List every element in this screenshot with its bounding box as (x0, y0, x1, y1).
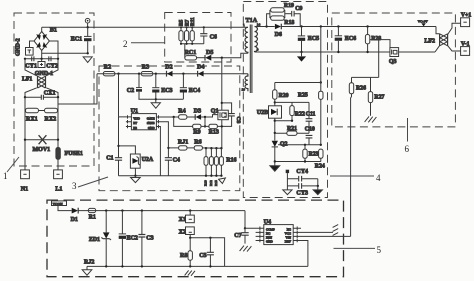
capacitor C1 (106, 117, 122, 176)
svg-text:EC1: EC1 (71, 36, 82, 42)
junction CY right (57, 58, 59, 60)
section3 bottom wire (119, 175, 222, 177)
wire RC1 to D5 (197, 57, 205, 59)
svg-text:L1: L1 (55, 187, 62, 193)
svg-text:X2: X2 (179, 229, 186, 235)
svg-text:R1: R1 (89, 214, 96, 220)
link between gate rows (204, 117, 206, 126)
sense resistor bank with R16 (204, 147, 237, 177)
junction VDD drop (117, 73, 119, 75)
caps bottom wire (138, 98, 183, 100)
svg-text:3: 3 (72, 181, 77, 191)
svg-text:C11: C11 (306, 111, 316, 117)
resistor R7 (rotated label) (184, 19, 190, 44)
resistor R3 (141, 65, 153, 76)
svg-text:FB: FB (133, 126, 137, 130)
diode D5 (205, 50, 213, 60)
wire to R20 (275, 82, 321, 84)
svg-text:CX1: CX1 (44, 91, 56, 97)
svg-text:RX2: RX2 (45, 116, 57, 122)
shunt regulator U2A (117, 145, 154, 176)
junction EC5 bottom + ground (297, 51, 306, 62)
box 4 secondary rectifier/feedback (243, 2, 327, 198)
long feedback vertical to U4 (350, 94, 353, 237)
terminal X2 (179, 227, 195, 238)
capacitor C2 (127, 74, 142, 100)
diode D1 (71, 208, 79, 223)
svg-text:C7: C7 (234, 233, 241, 239)
svg-text:RJ2: RJ2 (84, 260, 94, 266)
wire D5 to transformer primary bottom (211, 53, 248, 57)
VCON input mini box (52, 201, 72, 211)
U4 pin VIN to feedback vertical (293, 235, 350, 239)
slash ground below R27 (365, 116, 377, 122)
capacitor C11 (306, 102, 316, 133)
slanted ground arrow at sense bank (219, 178, 226, 184)
section5 top wire (78, 210, 245, 212)
feedback divider takeoff vertical (320, 25, 322, 27)
svg-text:C3: C3 (146, 235, 153, 241)
fuse FUSE1 (56, 148, 83, 170)
junction EC4 drop (182, 73, 184, 75)
MOSFET Q1 (211, 109, 228, 120)
resistor RC1 (185, 50, 197, 60)
svg-text:6: 6 (405, 144, 410, 154)
resistor RX1 (26, 108, 39, 122)
U1 pin RT stub (126, 120, 131, 123)
svg-text:RT: RT (133, 121, 137, 125)
gate pulldown row wire (174, 117, 222, 126)
label 2 leader (131, 42, 165, 44)
snubber capacitor C8 loop (221, 102, 241, 127)
svg-text:EC5: EC5 (308, 36, 319, 42)
label 5 leader (334, 247, 376, 249)
svg-text:14: 14 (257, 22, 261, 26)
box 6 output filter (332, 13, 456, 127)
U1 pin VDD stub (119, 115, 132, 118)
svg-text:FUSE1: FUSE1 (65, 151, 83, 157)
filled ground arrow right (313, 186, 322, 195)
U4 pin VCC to chassis ground (293, 231, 333, 235)
primary winding (245, 27, 248, 53)
section4 ground bus (275, 161, 321, 163)
svg-text:MOV1: MOV1 (33, 147, 51, 153)
svg-text:EC4: EC4 (189, 88, 200, 94)
Q1 source vertical (221, 120, 223, 149)
lower feedback wire (278, 144, 321, 146)
resistor R23 (303, 145, 319, 162)
svg-text:VDD: VDD (133, 116, 140, 120)
terminal V- (461, 42, 470, 56)
wire VDD feed vertical (118, 74, 120, 117)
diode D2 (165, 65, 172, 77)
transistor Q2 (272, 141, 288, 162)
svg-text:C10: C10 (305, 126, 315, 132)
svg-text:R3: R3 (142, 65, 149, 71)
svg-text:R25: R25 (298, 92, 308, 98)
svg-text:RX1: RX1 (26, 116, 38, 122)
X2 row wire (190, 238, 224, 267)
core (250, 25, 252, 94)
diode D6 (275, 24, 282, 38)
snubber bottom connecting wire (181, 43, 204, 45)
svg-text:C5: C5 (199, 253, 206, 259)
svg-text:D5: D5 (206, 50, 213, 56)
open ground arrow left (283, 190, 292, 195)
box 2 snubber (165, 13, 231, 63)
section5 ground bus (87, 265, 308, 267)
resistor R24 (315, 149, 325, 169)
svg-text:D6: D6 (275, 32, 282, 38)
output node label VO (418, 20, 428, 27)
capacitor C6 (200, 26, 217, 44)
svg-text:LF1: LF1 (22, 77, 32, 83)
svg-text:Q3: Q3 (389, 59, 397, 65)
svg-text:R11: R11 (190, 17, 196, 26)
capacitor EC5 (298, 25, 319, 52)
IC U4 (264, 219, 294, 245)
svg-text:GND: GND (148, 126, 155, 130)
U4 pin DRV down to bus (293, 239, 308, 267)
node circle test point (85, 18, 90, 27)
feedback wire to R26 R27 (352, 76, 379, 78)
capacitor C5 (199, 238, 214, 268)
U1 pin FB stub (126, 125, 131, 128)
capacitor C4 (165, 147, 180, 176)
svg-text:CY2: CY2 (46, 63, 58, 69)
svg-text:C6: C6 (210, 34, 217, 40)
svg-text:R9: R9 (193, 130, 200, 136)
opto/reference U2B (257, 106, 282, 141)
capacitor EC2 (119, 209, 138, 266)
svg-text:CY4: CY4 (296, 169, 308, 175)
svg-text:Q1: Q1 (211, 109, 219, 115)
capacitor CY4 (287, 169, 317, 186)
svg-text:CY1: CY1 (25, 63, 37, 69)
svg-text:10: 10 (242, 88, 246, 92)
capacitor CY1 (25, 56, 37, 69)
capacitor CY3 (287, 183, 319, 197)
svg-text:GATE: GATE (147, 116, 155, 120)
capacitor EC3 (152, 74, 172, 100)
ground below U2A (131, 176, 141, 183)
svg-text:2: 2 (123, 39, 128, 49)
capacitor C3 (138, 209, 153, 266)
svg-text:R22: R22 (295, 111, 305, 117)
ground below EC1 (83, 57, 92, 63)
capacitor EC4 (180, 74, 200, 100)
resistor R21 (275, 126, 309, 136)
U4 left pin stubs (245, 227, 264, 231)
wire snubber down leg (184, 44, 186, 58)
svg-text:R19: R19 (284, 3, 294, 9)
label 6 leader (407, 118, 409, 142)
right vertical L line (57, 97, 59, 147)
wire U2B lower node (275, 120, 292, 122)
terminal X1 (179, 209, 195, 223)
label 4 leader (330, 175, 374, 177)
terminal N1 (21, 170, 30, 193)
svg-text:EC3: EC3 (161, 88, 172, 94)
transformer T1A (242, 17, 261, 93)
resistor R4 (178, 109, 187, 120)
resistor R25 (298, 83, 323, 145)
junction CY mid (40, 58, 42, 60)
svg-text:DRV: DRV (285, 240, 292, 244)
slash ground below C7 (240, 246, 252, 252)
svg-text:1: 1 (243, 23, 245, 27)
resistor R8 (180, 238, 192, 268)
secondary winding (255, 27, 258, 53)
gate row wire (174, 116, 196, 118)
svg-text:VO.0V: VO.0V (418, 20, 428, 24)
svg-text:R27: R27 (374, 95, 384, 101)
svg-text:EC2: EC2 (127, 235, 138, 241)
wire bridge left vertex to GND-2 box (30, 41, 35, 48)
terminal L1 (54, 170, 63, 193)
wire bridge top to rail (41, 27, 43, 31)
MOSFET Q3 (389, 48, 399, 66)
svg-text:R24: R24 (315, 164, 325, 170)
junction C2 drop (138, 73, 140, 75)
bridge rectifier B1 (34, 27, 57, 51)
svg-text:C8: C8 (235, 117, 241, 124)
wire gate to Q1 (205, 115, 218, 117)
wire bridge bottom to CY row (41, 51, 43, 59)
sense row wire (168, 147, 221, 149)
svg-text:CY3: CY3 (296, 191, 308, 197)
svg-text:R2: R2 (104, 65, 111, 71)
svg-text:U2A: U2A (142, 157, 154, 163)
junction EC3 drop (155, 73, 157, 75)
svg-text:GND-2: GND-2 (16, 38, 22, 56)
U1 pin GATE stub (156, 115, 173, 118)
ground below EC3 (151, 99, 160, 108)
junction Q1 drain on snubber wire (221, 57, 223, 59)
zener ZD1 (89, 209, 111, 266)
label 1 leader (7, 157, 19, 172)
wire R20 node to R22/C11 (275, 101, 309, 103)
resistor R27 (368, 77, 384, 115)
wire RX row (25, 110, 58, 112)
resistor R13 (209, 124, 219, 135)
secondary bottom rail (255, 51, 436, 53)
resistor R26 (349, 77, 366, 93)
svg-text:RJ1: RJ1 (178, 140, 188, 146)
U1 pin GND stub and vertical (156, 125, 160, 176)
svg-text:5: 5 (377, 245, 382, 255)
svg-text:D1: D1 (71, 217, 78, 223)
slash ground below R8 (185, 270, 195, 275)
box 5 bottom control (47, 200, 344, 277)
svg-text:EC6: EC6 (345, 36, 356, 42)
wire bridge right vertex to L vertical (49, 41, 58, 59)
capacitor CX1 (24, 91, 59, 100)
Q3 gate net (370, 40, 390, 78)
svg-text:N1: N1 (21, 187, 28, 193)
resistor R20 (273, 83, 289, 106)
svg-text:C4: C4 (173, 158, 180, 164)
U1 pin SNSB stub and vertical (156, 120, 168, 148)
svg-text:ZD1: ZD1 (89, 237, 100, 243)
svg-text:SNSB: SNSB (147, 121, 155, 125)
svg-text:VCON: VCON (53, 202, 64, 206)
tiny rotated labels under sense bank (204, 180, 219, 186)
resistor R11 (rotated label) (190, 17, 196, 44)
GND-2 thermistor box (26, 48, 34, 56)
svg-text:D4: D4 (197, 65, 204, 71)
svg-text:1: 1 (3, 171, 8, 181)
aux winding (245, 74, 248, 92)
box 1 input filter (14, 13, 94, 166)
aux supply rail (97, 73, 248, 75)
Q1 drain vertical (221, 58, 223, 110)
resistor RX2 (45, 108, 58, 122)
secondary top rail (255, 26, 437, 28)
earth box below CY mid (38, 59, 45, 68)
junction CY left (24, 58, 26, 60)
U4 right pin NC stub (293, 227, 301, 231)
resistor R28 (365, 25, 381, 53)
resistor R6 (194, 140, 202, 150)
output choke LF2 (424, 23, 460, 52)
svg-text:C2: C2 (127, 88, 134, 94)
CY4 pin stub (286, 170, 289, 190)
svg-text:4: 4 (376, 173, 381, 183)
resistor R22 (290, 102, 305, 120)
resistor RJ2 + ground (82, 260, 94, 276)
svg-text:C1: C1 (106, 156, 113, 162)
parallel resistors R19 R18 (265, 3, 294, 28)
capacitor EC6 (335, 25, 356, 53)
svg-text:R4: R4 (178, 109, 185, 115)
svg-text:X1: X1 (179, 217, 186, 223)
svg-text:R20: R20 (279, 93, 289, 99)
svg-text:D3: D3 (194, 109, 201, 115)
common mode choke LF1 (22, 59, 58, 97)
svg-text:GND: GND (266, 240, 273, 244)
wire CX1 to section3 (R2 row feed) (58, 74, 97, 104)
svg-text:R13: R13 (209, 130, 219, 136)
capacitor EC1 (71, 26, 92, 53)
diode D3 (194, 109, 205, 120)
svg-text:R12: R12 (209, 180, 213, 186)
svg-text:R23: R23 (309, 152, 319, 158)
resistor RJ1 (178, 140, 188, 150)
CY row wire (25, 58, 58, 60)
svg-text:R6: R6 (194, 140, 201, 146)
capacitor C7 (234, 211, 248, 244)
varistor MOV1 (24, 135, 59, 153)
resistor R1 (label) (88, 208, 96, 220)
capacitor C9 (292, 6, 303, 26)
svg-text:R8: R8 (180, 253, 187, 259)
left vertical N line (24, 97, 26, 170)
box 3 primary control (99, 66, 240, 191)
diode D4 (197, 65, 204, 77)
svg-text:U2B: U2B (257, 110, 268, 116)
filled ground arrow below bus (270, 162, 280, 172)
svg-text:D2: D2 (165, 65, 172, 71)
terminal V+ (461, 13, 472, 27)
svg-text:R10: R10 (204, 180, 208, 186)
resistor R2 (103, 65, 115, 76)
chassis ground squiggle (333, 225, 339, 236)
svg-text:R15: R15 (214, 180, 218, 186)
capacitor C10 (305, 126, 315, 145)
svg-text:LF2: LF2 (424, 39, 435, 45)
resistor R9 (193, 124, 201, 135)
label 3 leader (78, 177, 108, 187)
IC U1 (131, 108, 157, 130)
capacitor CY2 (46, 56, 58, 69)
svg-text:R16: R16 (226, 158, 236, 164)
svg-text:R18: R18 (284, 20, 294, 26)
MAIN-CONTENT (16, 18, 248, 192)
svg-text:R26: R26 (356, 86, 366, 92)
svg-text:9: 9 (257, 48, 259, 52)
svg-text:C9: C9 (295, 6, 302, 12)
resistor R5 (rotated label) (179, 19, 185, 44)
top rail primary (42, 26, 248, 28)
wire EC1 bottom to bridge bottom (42, 52, 88, 54)
